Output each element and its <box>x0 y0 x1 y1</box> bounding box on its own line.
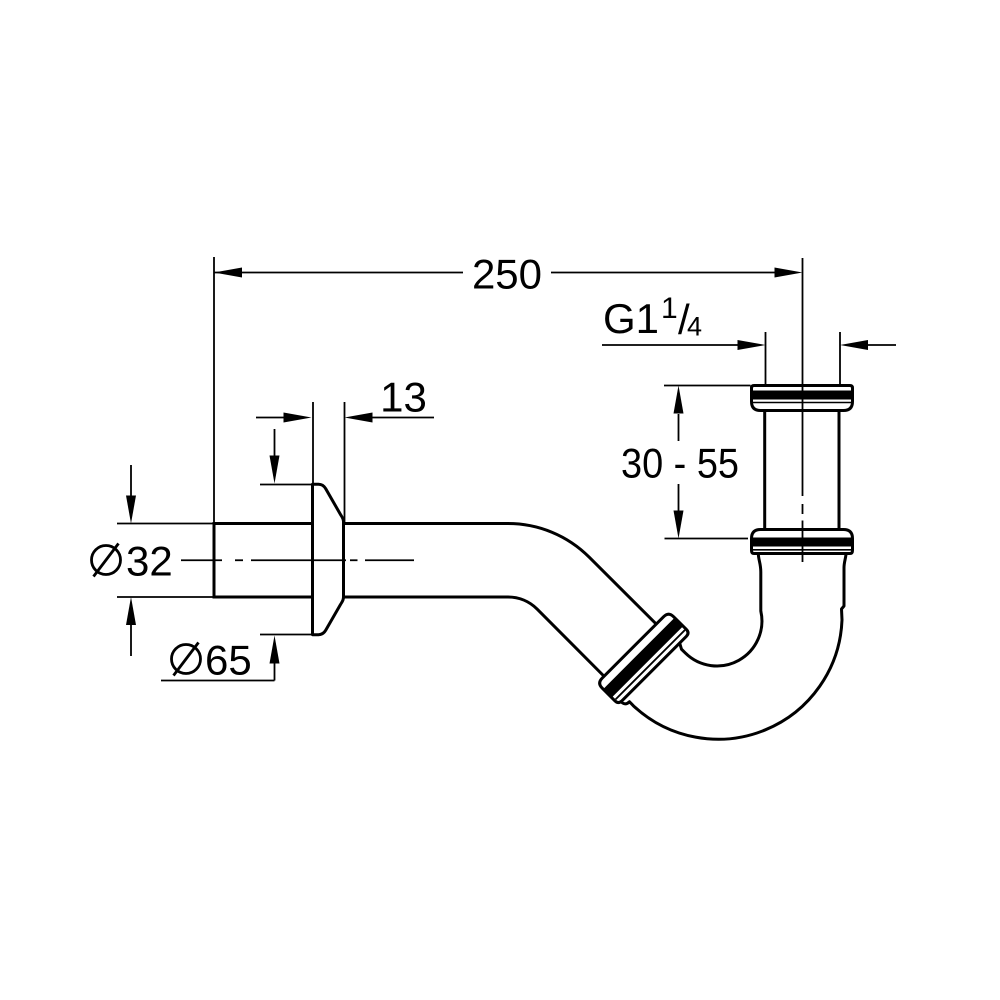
svg-text:1: 1 <box>661 292 678 325</box>
dimension dia 65 lines <box>161 429 311 681</box>
dimension dia 65 arrowhead up <box>270 636 280 664</box>
svg-text:4: 4 <box>687 312 702 342</box>
dimension 250 arrowhead left <box>214 268 242 278</box>
centerline of riser (dash-dot) <box>802 258 804 562</box>
svg-text:G1: G1 <box>603 295 659 342</box>
dimension 13 arrowhead right <box>345 413 373 423</box>
riser tube between coupling nuts <box>765 405 839 535</box>
dimension dia 32 arrowhead up <box>126 597 136 625</box>
dimension G1 1/4 arrowhead left <box>738 340 766 350</box>
coupling nut diagonal (with gasket band) <box>597 611 690 704</box>
wall flange (escutcheon) <box>313 484 344 634</box>
svg-text:65: 65 <box>205 637 252 684</box>
coupling nut top (with gasket band) <box>751 386 854 411</box>
diameter symbol of dia 32 <box>92 546 121 575</box>
dimension dia 32 arrowhead down <box>126 496 136 524</box>
svg-text:32: 32 <box>126 538 173 585</box>
svg-text:250: 250 <box>472 251 542 298</box>
dimension 30 - 55 arrowhead down <box>674 511 684 539</box>
svg-text:13: 13 <box>380 374 427 421</box>
dimension 250 lines <box>214 257 776 523</box>
coupling nut lower (with gasket band) <box>751 530 854 554</box>
dimension 30 - 55 arrowhead up <box>674 386 684 414</box>
dimension 13 lines <box>256 402 434 522</box>
diameter symbol of dia 65 <box>172 645 201 674</box>
dimension 250 arrowhead right <box>775 268 803 278</box>
pipe body (inlet tube, 45-degree bend, U-bowl, outlet riser) <box>214 524 846 740</box>
dimension 13 arrowhead left <box>284 413 312 423</box>
svg-text:30 - 55: 30 - 55 <box>621 440 739 487</box>
dimension G1 1/4 lines <box>602 332 896 384</box>
dimension 30 - 55 lines <box>664 386 751 539</box>
dimension dia 65 arrowhead down <box>270 456 280 484</box>
dimension dia 32 lines <box>117 465 213 656</box>
dimension G1 1/4 arrowhead right <box>840 340 868 350</box>
centerline of inlet tube (dash-dot) <box>181 559 414 561</box>
pipe open end line (left) <box>213 522 216 599</box>
